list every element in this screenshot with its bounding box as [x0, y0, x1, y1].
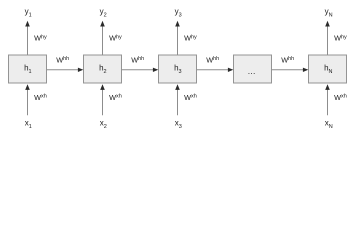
wire input x3 — [175, 84, 180, 115]
wire Whh 4 — [272, 68, 309, 72]
wire Whh 2 — [122, 68, 159, 72]
label Why col N — [334, 34, 347, 43]
label Wxh col 1 — [34, 93, 47, 102]
label yN — [325, 7, 333, 19]
wire output yN — [325, 21, 330, 55]
label Whh 2 — [131, 55, 144, 64]
label hN — [324, 64, 332, 76]
label y2 — [100, 7, 107, 19]
label Why col 2 — [109, 34, 122, 43]
label Wxh col 2 — [109, 93, 122, 102]
wire output y3 — [175, 21, 180, 55]
box h1 — [9, 55, 47, 83]
label Wxh col N — [334, 93, 347, 102]
box h3 — [159, 55, 197, 83]
ellipsis label — [248, 66, 256, 76]
wire output y2 — [100, 21, 105, 55]
label h1 — [24, 64, 32, 76]
label x1 — [25, 119, 32, 130]
box h2 — [84, 55, 122, 83]
box dots — [234, 55, 272, 83]
label x2 — [100, 119, 107, 130]
label Whh 3 — [206, 55, 219, 64]
box hN — [309, 55, 347, 83]
label Why col 3 — [184, 34, 197, 43]
wire input xN — [325, 84, 330, 115]
label y1 — [25, 7, 32, 19]
label Why col 1 — [34, 34, 47, 43]
svg-text:...: ... — [248, 66, 256, 76]
label x3 — [175, 119, 182, 130]
wire output y1 — [25, 21, 30, 55]
wire Whh 1 — [47, 68, 84, 72]
label h2 — [99, 64, 107, 76]
wire Whh 3 — [197, 68, 234, 72]
label Wxh col 3 — [184, 93, 197, 102]
label Whh 4 — [281, 55, 294, 64]
wire input x1 — [25, 84, 30, 115]
label h3 — [174, 64, 182, 76]
wire input x2 — [100, 84, 105, 115]
label y3 — [175, 7, 182, 19]
label Whh 1 — [56, 55, 69, 64]
label xN — [325, 119, 333, 130]
